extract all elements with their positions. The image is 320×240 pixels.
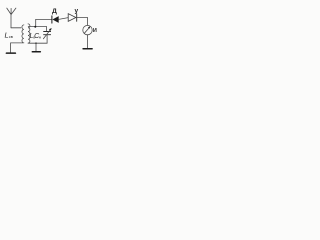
wire capacitor bottom [46,35,48,44]
inductor Lsv (coupling coil) [22,25,24,43]
node junction tank top [34,26,36,28]
wire diode to amplifier [59,18,68,20]
capacitor Cn arrow [43,30,50,39]
wire Lsv bottom to ground [11,43,23,52]
wire tank top [28,26,46,28]
wire antenna stem down [10,15,12,28]
diode D (detector) [52,16,59,23]
ground (antenna side) [6,52,15,54]
capacitor Cn plates (variable) [44,32,51,35]
ground (meter side) [83,48,92,50]
wire amplifier to meter [77,18,88,26]
svg-text:н: н [39,35,41,40]
wire meter bottom to ground [87,35,89,48]
ground (tank) [32,51,40,53]
antenna W1 [7,8,16,14]
wire tap up to detector line [36,19,52,26]
svg-text:св: св [9,34,13,39]
inductor Lk (tank coil) [28,24,30,43]
background [0,0,100,60]
wire antenna to coil Lsv [11,27,21,29]
amplifier U (triangle) [68,14,77,22]
meter I (galvanometer) [83,25,92,34]
wire tank top to capacitor [46,27,48,32]
svg-text:Д: Д [52,8,57,15]
wire tank bottom to ground [35,43,37,51]
wire tank bottom rail [28,42,47,44]
svg-text:у: у [75,8,79,15]
svg-text:И: И [93,28,97,34]
node junction tank bottom [35,42,37,44]
